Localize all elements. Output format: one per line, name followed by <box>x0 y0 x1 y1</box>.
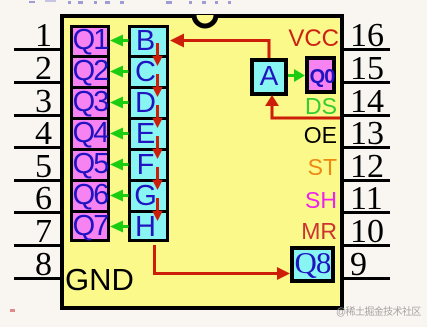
label OE (pin 13) <box>237 124 337 147</box>
notch (top orientation mark) <box>194 15 216 26</box>
pin 11 number <box>350 182 410 216</box>
label A <box>254 62 284 90</box>
pin 10 number <box>350 215 410 249</box>
pin 7 lead <box>14 244 61 247</box>
box Q0 <box>305 56 336 94</box>
pin 12 lead <box>344 179 390 182</box>
box Q8 <box>290 246 335 283</box>
label Q4 <box>70 119 110 148</box>
pin 15 number <box>350 52 410 86</box>
output latch column Q1-Q7 <box>70 25 110 242</box>
label Q6 <box>70 181 110 210</box>
pin 1 number <box>0 19 52 53</box>
label ST (pin 12) <box>237 156 337 179</box>
separator E/F <box>129 148 168 151</box>
pin 1 lead <box>14 48 61 51</box>
shift arrow B->C <box>152 43 163 66</box>
shift arrow E->F <box>152 136 163 159</box>
label Q8 <box>290 247 335 278</box>
pin 3 number <box>0 85 52 119</box>
wire H->Q8 <box>155 245 291 280</box>
label Q1 <box>70 26 110 55</box>
label Q5 <box>70 150 110 179</box>
shift arrow C->D <box>152 74 163 97</box>
IC body U1 (74HC595 outline) <box>60 14 344 310</box>
wire A->Q0 arrow <box>288 67 306 84</box>
wire B->Q1 arrow <box>110 35 129 47</box>
label F <box>125 151 166 180</box>
pin 15 lead <box>344 81 390 84</box>
pin 2 number <box>0 52 52 86</box>
wire C->Q2 arrow <box>110 66 129 78</box>
wire F->Q5 arrow <box>110 159 129 171</box>
separator G/H <box>129 210 168 213</box>
label MR (pin 10) <box>237 220 337 243</box>
pin 8 lead <box>14 277 61 280</box>
label C <box>125 58 166 87</box>
pin 8 number <box>0 248 52 282</box>
pin 13 number <box>350 117 410 151</box>
label SH (pin 11) <box>237 189 337 212</box>
separator Q1/Q2 <box>71 55 109 58</box>
pin 5 lead <box>14 179 61 182</box>
shift arrow D->E <box>152 105 163 128</box>
separator Q2/Q3 <box>71 86 109 89</box>
cropped title text fragments (top edge) <box>29 0 229 4</box>
label D <box>125 89 166 118</box>
label E <box>125 120 166 149</box>
pin 16 lead <box>344 48 390 51</box>
pin 6 lead <box>14 211 61 214</box>
separator Q6/Q7 <box>71 210 109 213</box>
box A (serial input stage) <box>250 58 288 96</box>
shift arrow G->H <box>152 198 163 221</box>
stray red mark bottom left <box>10 309 15 312</box>
separator C/D <box>129 86 168 89</box>
label DS (pin 14) <box>237 95 337 118</box>
shift arrow F->G <box>152 167 163 190</box>
pin 9 number <box>350 248 410 282</box>
pin 4 lead <box>14 146 61 149</box>
label B <box>125 27 166 56</box>
label Q3 <box>70 88 110 117</box>
label H <box>125 213 166 242</box>
pin 12 number <box>350 150 410 184</box>
separator Q3/Q4 <box>71 117 109 120</box>
wire H->Q7 arrow <box>110 221 129 233</box>
pin 2 lead <box>14 81 61 84</box>
separator F/G <box>129 179 168 182</box>
wire D->Q3 arrow <box>110 97 129 109</box>
pin 10 lead <box>344 244 390 247</box>
wire DS->A <box>265 95 340 118</box>
label GND (pin 8) <box>65 264 134 295</box>
pin 14 number <box>350 85 410 119</box>
pin 4 number <box>0 117 52 151</box>
label Q0 <box>306 67 338 87</box>
separator B/C <box>129 55 168 58</box>
separator D/E <box>129 117 168 120</box>
pin 16 number <box>350 19 410 53</box>
label VCC (pin 16) <box>237 27 339 51</box>
pin 6 number <box>0 182 52 216</box>
pin 9 lead <box>344 277 390 280</box>
pin 11 lead <box>344 211 390 214</box>
pin 5 number <box>0 150 52 184</box>
pin 7 number <box>0 215 52 249</box>
pin 13 lead <box>344 146 390 149</box>
label Q2 <box>70 57 110 86</box>
label G <box>125 182 166 211</box>
shift register column B-H <box>128 25 169 242</box>
separator Q5/Q6 <box>71 179 109 182</box>
pin 3 lead <box>14 114 61 117</box>
pin 14 lead <box>344 114 390 117</box>
wire A->B (feedback to shift register) <box>170 34 269 59</box>
separator Q4/Q5 <box>71 148 109 151</box>
wire E->Q4 arrow <box>110 128 129 140</box>
watermark <box>336 308 421 318</box>
wire G->Q6 arrow <box>110 190 129 202</box>
label Q7 <box>70 212 110 241</box>
